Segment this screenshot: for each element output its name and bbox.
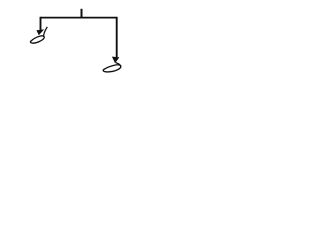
wire: right vertical lead bbox=[116, 17, 118, 57]
wire: left pigtail exit tail bbox=[44, 27, 48, 37]
node A: center tick stub on top wire bbox=[81, 9, 83, 18]
coil L2: right pigtail loop bbox=[103, 65, 121, 72]
wire: right pigtail entry tail bbox=[116, 63, 121, 67]
wire: top horizontal bus bbox=[41, 17, 117, 19]
wire: left vertical lead bbox=[40, 17, 42, 30]
arrow: right arrowhead pointing down bbox=[112, 57, 119, 64]
coil L1: left pigtail loop bbox=[30, 36, 44, 43]
arrow: left arrowhead pointing down bbox=[36, 29, 44, 35]
